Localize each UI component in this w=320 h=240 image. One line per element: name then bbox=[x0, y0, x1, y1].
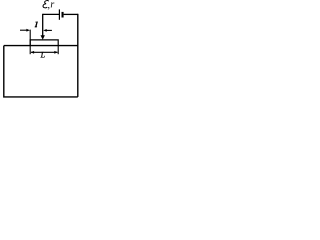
battery long plate (+) bbox=[58, 9, 60, 19]
battery label ℰ, r bbox=[43, 0, 54, 11]
wire: battery top-right segment bbox=[64, 13, 78, 15]
box (table) outline bbox=[4, 46, 78, 97]
dimension l: right arrow pointing left bbox=[46, 29, 52, 31]
current arrowhead into rod bbox=[41, 35, 45, 40]
rod (bar) on top of box bbox=[30, 40, 58, 46]
svg-text:L: L bbox=[40, 51, 46, 60]
extension line right (x=58) for L dimension bbox=[57, 46, 59, 55]
dimension L: line with outward arrowheads bbox=[31, 51, 57, 53]
svg-text:r: r bbox=[50, 0, 54, 11]
extension line left (x=30) for l and L dimensions bbox=[29, 30, 31, 55]
dimension l: left arrow pointing right bbox=[20, 29, 27, 31]
wire: left lead from battery down to rod bbox=[42, 14, 44, 36]
battery short plate (-) bbox=[62, 12, 64, 18]
wire: battery top-left segment bbox=[43, 13, 59, 15]
wire: right lead from battery down to box right edge bbox=[77, 14, 79, 97]
label l bbox=[35, 22, 38, 28]
